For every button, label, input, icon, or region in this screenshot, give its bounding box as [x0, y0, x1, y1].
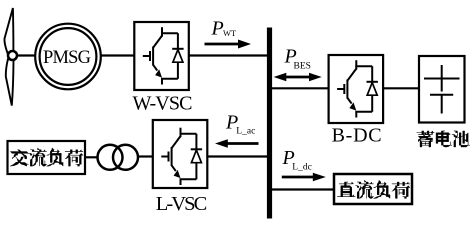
- generator PMSG (double circle): [35, 24, 101, 90]
- converter B-DC box: [329, 55, 384, 123]
- label P_BES: [284, 46, 311, 72]
- IGBT symbol U2 inside B-DC: [337, 60, 378, 117]
- svg-text:W-VSC: W-VSC: [133, 93, 193, 115]
- DC load box 直流负荷: [334, 174, 412, 204]
- svg-text:L_dc: L_dc: [292, 163, 312, 173]
- DC bus bar (node DC bus): [267, 28, 272, 219]
- wind turbine upper blade: [4, 8, 13, 53]
- svg-text:BES: BES: [294, 62, 311, 72]
- label W-VSC: [133, 93, 193, 115]
- svg-text:B-DC: B-DC: [332, 125, 382, 147]
- AC load box 交流负荷: [8, 141, 86, 174]
- wire DC bus to B-DC: [272, 87, 329, 89]
- transformer T1 (two overlapping circles): [98, 145, 139, 170]
- label L-VSC: [156, 193, 208, 215]
- svg-text:WT: WT: [223, 28, 237, 38]
- converter L-VSC box: [153, 120, 208, 188]
- arrow P_L_ac (left): [215, 139, 259, 148]
- label 交流负荷 (AC load): [10, 148, 83, 166]
- wire AC load to transformer: [85, 156, 98, 158]
- wind turbine lower blade: [6, 59, 14, 105]
- IGBT symbol U3 inside L-VSC: [161, 128, 202, 185]
- converter W-VSC box: [134, 22, 189, 90]
- wire transformer to L-VSC: [138, 155, 153, 157]
- label 直流负荷 (DC load): [337, 180, 410, 198]
- wire B-DC to battery: [383, 87, 419, 89]
- wire L-VSC to DC bus: [207, 155, 267, 157]
- wire DC bus to DC load: [272, 188, 334, 190]
- wind turbine hub: [8, 51, 17, 60]
- arrow P_WT (right): [205, 40, 252, 49]
- arrow P_L_dc (right): [282, 173, 326, 182]
- label P_L_dc: [282, 147, 312, 172]
- label 蓄电池 (battery): [417, 131, 470, 147]
- label P_WT: [211, 17, 238, 39]
- battery symbol (cell plates): [424, 65, 460, 114]
- label B-DC: [332, 125, 382, 147]
- svg-text:L-VSC: L-VSC: [156, 193, 208, 215]
- battery box: [419, 56, 465, 123]
- svg-text:PMSG: PMSG: [43, 48, 91, 68]
- label P_L_ac: [225, 112, 255, 137]
- wire hub to PMSG: [16, 54, 36, 56]
- svg-text:L_ac: L_ac: [236, 127, 255, 137]
- IGBT symbol U1 inside W-VSC: [143, 27, 184, 84]
- wire W-VSC to DC bus: [189, 54, 267, 56]
- double arrow P_BES (bidirectional): [274, 73, 322, 82]
- wire PMSG to W-VSC: [101, 54, 135, 56]
- svg-text:P: P: [211, 17, 224, 39]
